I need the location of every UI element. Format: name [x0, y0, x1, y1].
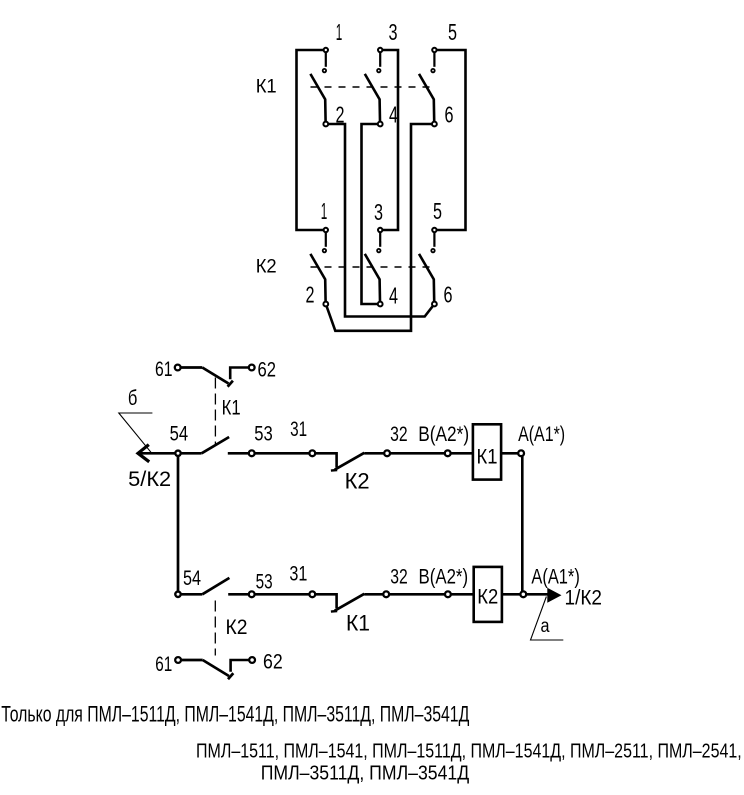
svg-text:3: 3 [374, 199, 383, 225]
svg-text:54: 54 [183, 566, 201, 590]
svg-text:32: 32 [390, 422, 408, 446]
svg-text:В(А2*): В(А2*) [419, 565, 469, 589]
svg-text:5: 5 [433, 198, 442, 224]
svg-text:К1: К1 [477, 444, 498, 468]
svg-text:31: 31 [290, 417, 307, 441]
svg-text:1/К2: 1/К2 [565, 586, 603, 610]
svg-text:62: 62 [263, 650, 283, 674]
svg-text:6: 6 [444, 282, 453, 308]
svg-text:1: 1 [336, 19, 343, 45]
svg-text:5/К2: 5/К2 [128, 467, 171, 491]
svg-text:К1: К1 [256, 76, 277, 98]
svg-text:ПМЛ–1511, ПМЛ–1541, ПМЛ–1511Д,: ПМЛ–1511, ПМЛ–1541, ПМЛ–1511Д, ПМЛ–1541Д… [196, 739, 742, 762]
svg-text:61: 61 [155, 357, 173, 381]
svg-text:61: 61 [155, 652, 172, 676]
svg-text:К2: К2 [226, 615, 248, 639]
svg-text:4: 4 [389, 102, 398, 128]
svg-text:4: 4 [389, 283, 398, 309]
svg-text:31: 31 [289, 561, 307, 585]
svg-text:К1: К1 [222, 395, 241, 419]
svg-text:53: 53 [254, 422, 273, 446]
svg-text:53: 53 [256, 570, 273, 594]
svg-text:А(А1*): А(А1*) [518, 422, 565, 446]
svg-text:2: 2 [336, 102, 345, 128]
svg-text:а: а [541, 616, 550, 637]
svg-text:54: 54 [170, 421, 189, 445]
svg-text:ПМЛ–3511Д, ПМЛ–3541Д: ПМЛ–3511Д, ПМЛ–3541Д [261, 761, 470, 784]
svg-text:1: 1 [321, 198, 328, 224]
svg-text:2: 2 [306, 282, 315, 308]
svg-text:Только для ПМЛ–1511Д, ПМЛ–1541: Только для ПМЛ–1511Д, ПМЛ–1541Д, ПМЛ–351… [1, 701, 469, 726]
svg-text:К2: К2 [256, 256, 277, 278]
svg-text:К1: К1 [346, 611, 370, 636]
svg-text:б: б [128, 386, 138, 410]
svg-text:3: 3 [389, 19, 398, 45]
svg-text:62: 62 [258, 357, 277, 381]
svg-text:6: 6 [445, 102, 454, 128]
svg-text:32: 32 [390, 565, 408, 589]
svg-text:К2: К2 [477, 585, 498, 609]
svg-text:К2: К2 [345, 469, 370, 494]
svg-text:В(А2*): В(А2*) [418, 422, 469, 446]
svg-text:5: 5 [448, 19, 457, 45]
